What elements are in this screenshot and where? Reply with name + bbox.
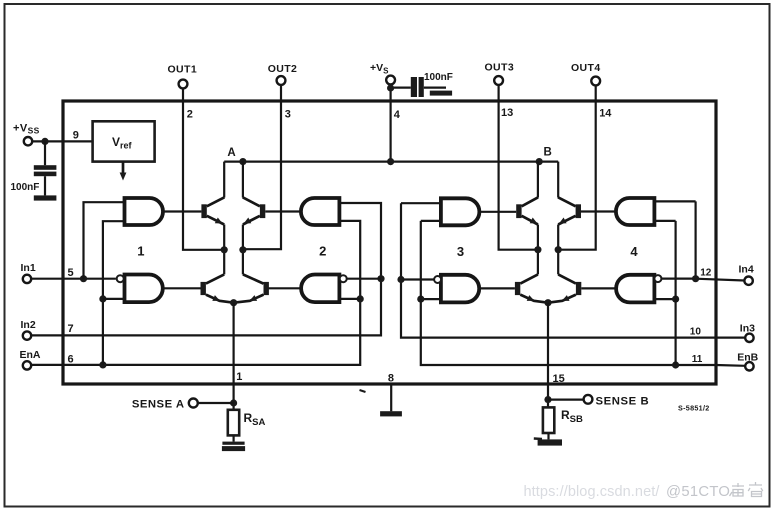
svg-text:In2: In2 <box>21 319 36 331</box>
svg-text:https://blog.csdn.net/: https://blog.csdn.net/ <box>524 484 661 500</box>
wire gate3 lower output to Q7 base <box>479 287 515 289</box>
junction gate4 lower branch <box>672 296 679 303</box>
junction +VS on rail <box>387 158 394 165</box>
wire gate4 bubble input <box>661 278 695 280</box>
wire gate4 lower input from EnB <box>654 220 675 222</box>
wire EnA riser to gate1 lower input <box>103 221 125 365</box>
svg-text:15: 15 <box>553 373 565 385</box>
junction OUT2 <box>239 246 246 253</box>
capacitor C1 plate 2 <box>34 172 57 177</box>
wire branch to gate2 inverted lower input <box>339 298 360 300</box>
AND gate 1 lower with inverting input <box>125 275 163 303</box>
svg-text:7: 7 <box>68 323 74 335</box>
wire sense B pin15 <box>547 303 549 408</box>
junction OUT4 <box>555 246 562 253</box>
capacitor C2 plate 2 <box>419 77 424 97</box>
wire gate3 lower input from EnB <box>421 220 441 222</box>
wire OUT3 riser pin13 <box>499 85 538 250</box>
junction In3 riser at gate3 bubble <box>397 276 404 283</box>
svg-text:6: 6 <box>68 354 74 366</box>
wire gate4 upper output to Q6 base <box>581 210 616 212</box>
ground at RSB <box>538 439 562 445</box>
resistor RSB <box>543 407 554 433</box>
transistor Q3 <box>201 282 206 295</box>
transistor Q8 <box>576 282 581 295</box>
wire OUT2 riser pin3 <box>243 85 281 249</box>
junction In1 riser <box>80 275 87 282</box>
junction sense A <box>230 399 237 406</box>
wire OUT1 riser pin2 <box>183 88 224 249</box>
wire gate2 lower output to Q4 base <box>264 287 302 289</box>
inverter bubble gate2 <box>340 275 347 282</box>
junction +VS top <box>387 84 394 91</box>
wire In4 riser <box>694 201 696 278</box>
wire OUT4 riser pin14 <box>558 85 596 249</box>
ground at RSA <box>222 442 244 445</box>
wire gate4 lower output to Q8 base <box>581 287 616 289</box>
wire bridgeB right collector riser <box>557 162 559 198</box>
svg-text:In3: In3 <box>740 322 755 334</box>
wire In2 net <box>31 203 381 335</box>
wire In4 net <box>696 279 745 281</box>
svg-text:8: 8 <box>388 373 394 385</box>
pin OUT1 terminal <box>179 80 188 89</box>
AND gate 4 upper <box>616 198 654 225</box>
junction EnB at gate4 riser <box>672 361 679 368</box>
resistor RSA <box>228 410 239 436</box>
junction In4 riser <box>692 275 699 282</box>
pin EnB terminal <box>745 362 753 370</box>
pin OUT4 terminal <box>591 77 600 86</box>
wire EnB net <box>421 221 745 366</box>
svg-text:4: 4 <box>630 244 638 259</box>
wire OUT4 leg <box>557 225 559 275</box>
wire gate4 inverted lower input <box>654 298 675 300</box>
junction EnA right riser branch <box>357 295 364 302</box>
svg-text:11: 11 <box>692 354 703 365</box>
pin OUT2 terminal <box>277 76 286 85</box>
svg-text:10: 10 <box>690 327 702 338</box>
wire GND pin8 stem <box>390 384 392 411</box>
wire In1 riser to gate1 upper input <box>84 202 125 279</box>
AND gate 2 lower with inverting input <box>301 275 339 303</box>
wire to SENSE B terminal <box>548 399 584 401</box>
wire to SENSE A terminal <box>198 402 234 404</box>
AND gate 1 upper <box>125 198 163 225</box>
transistor Q7 <box>515 282 520 295</box>
svg-text:EnA: EnA <box>20 349 41 361</box>
svg-text:1: 1 <box>137 244 144 259</box>
wire gate3 upper input from In3 <box>401 202 441 204</box>
AND gate 4 lower with inverting input <box>616 275 654 303</box>
junction bridgeA emitters <box>230 299 237 306</box>
junction gate3 lower branch <box>417 296 424 303</box>
svg-text:100nF: 100nF <box>11 182 40 193</box>
pin EnA terminal <box>23 361 31 369</box>
svg-text:OUT4: OUT4 <box>571 62 601 74</box>
svg-text:OUT1: OUT1 <box>167 64 197 76</box>
voltage reference block Vref <box>93 121 155 161</box>
svg-text:3: 3 <box>285 109 291 121</box>
pin +VSS terminal <box>24 137 32 145</box>
inverter bubble gate4 <box>654 275 661 282</box>
svg-text:14: 14 <box>599 107 612 119</box>
ground bar at C1 <box>34 195 57 200</box>
svg-text:2: 2 <box>187 109 193 121</box>
wire bridgeA left collector riser <box>223 162 225 198</box>
pin In2 terminal <box>23 331 31 339</box>
wire C1 stem <box>44 141 46 165</box>
wire RSB to ground <box>547 433 549 439</box>
wire gate3 bubble input <box>401 278 434 280</box>
pin In3 terminal <box>745 334 753 342</box>
wire branch to gate1 inverted lower input <box>103 298 125 300</box>
AND gate 2 upper <box>301 198 339 225</box>
capacitor C2 plate 1 <box>411 77 417 97</box>
wire EnA net <box>31 221 360 365</box>
svg-text:3: 3 <box>457 244 464 259</box>
wire bridgeA right collector riser <box>242 162 244 198</box>
inverter bubble gate3 <box>434 276 441 283</box>
arrow below Vref <box>122 162 125 174</box>
wire OUT1 leg <box>223 225 225 275</box>
ground at pin8 <box>380 411 402 416</box>
wire gate3 inverted lower input <box>421 298 441 300</box>
wire OUT3 leg <box>537 225 539 275</box>
node B junction <box>536 158 543 165</box>
pin OUT3 terminal <box>494 76 503 85</box>
pin SENSE B terminal <box>584 395 593 404</box>
wire gate4 upper input from In4 <box>654 200 695 202</box>
wire bridgeB left collector riser <box>537 162 539 198</box>
supply rail node A to node B <box>224 161 558 163</box>
junction bridgeB emitters <box>544 299 551 306</box>
wire +VSS to Vref pin9 <box>32 140 92 142</box>
transistor Q2 <box>260 204 265 218</box>
junction +VSS node <box>41 138 48 145</box>
svg-text:100nF: 100nF <box>424 72 453 83</box>
wire gate1 lower output to Q3 base <box>163 287 201 289</box>
wire C1 to ground <box>44 176 46 195</box>
svg-text:5: 5 <box>68 267 74 279</box>
transistor Q1 <box>201 204 206 218</box>
svg-text:12: 12 <box>700 268 712 279</box>
svg-text:B: B <box>543 147 551 159</box>
svg-text:4: 4 <box>394 109 401 121</box>
pin +VS terminal <box>386 76 395 85</box>
pin In1 terminal <box>23 275 31 283</box>
wire +VS stem <box>390 84 392 161</box>
wire In3 net <box>401 203 745 337</box>
stray mark <box>360 390 366 392</box>
inverter bubble gate1 <box>117 275 124 282</box>
wire In1 net <box>31 278 116 280</box>
svg-text:S-5851/2: S-5851/2 <box>678 404 710 413</box>
AND gate 3 lower with inverting input <box>441 275 479 303</box>
svg-text:@51CTO: @51CTO <box>666 484 730 500</box>
svg-text:2: 2 <box>319 244 326 259</box>
IC block box <box>63 101 716 384</box>
svg-text:SENSE B: SENSE B <box>596 395 650 407</box>
node A junction <box>239 158 246 165</box>
svg-text:9: 9 <box>73 130 79 142</box>
wire gate2 bubble input <box>347 278 381 280</box>
wire C2 to ground <box>424 86 446 88</box>
capacitor C1 plate 1 <box>34 165 57 170</box>
wire gate3 upper output to Q5 base <box>479 211 516 213</box>
AND gate 3 upper <box>441 198 479 225</box>
ground bar at C2 <box>430 91 452 96</box>
wire gate2 upper output to Q2 base <box>265 210 301 212</box>
svg-text:OUT2: OUT2 <box>268 63 298 75</box>
svg-text:In1: In1 <box>21 262 36 274</box>
svg-text:1: 1 <box>236 371 242 383</box>
transistor Q5 <box>516 204 521 218</box>
junction OUT1 <box>221 246 228 253</box>
wire gate1 upper output to Q1 base <box>163 210 201 212</box>
wire EnB riser gate4 <box>674 221 676 365</box>
transistor Q4 <box>264 282 269 295</box>
wire to capacitor C2 <box>394 86 411 88</box>
svg-text:SENSE A: SENSE A <box>132 399 185 411</box>
svg-text:A: A <box>227 147 235 159</box>
wire OUT2 leg <box>242 225 244 275</box>
pin SENSE A terminal <box>189 399 198 408</box>
svg-text:OUT3: OUT3 <box>484 62 514 74</box>
junction sense B <box>544 396 551 403</box>
transistor Q6 <box>576 204 581 218</box>
svg-text:In4: In4 <box>739 263 754 275</box>
wire RSA to ground <box>233 435 235 441</box>
wire sense A pin1 <box>233 303 235 410</box>
junction OUT3 <box>534 246 541 253</box>
svg-text:13: 13 <box>501 107 513 119</box>
junction EnA riser branch <box>99 295 106 302</box>
junction In2 riser at gate2 bubble <box>377 275 384 282</box>
junction EnA left riser <box>99 361 106 368</box>
pin In4 terminal <box>744 277 752 285</box>
